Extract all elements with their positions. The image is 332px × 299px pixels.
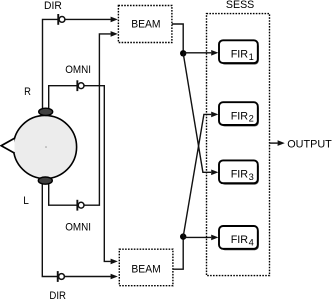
head (top view) (13, 115, 76, 178)
wire junction B to FIR4 (183, 235, 218, 241)
block FIR4 (219, 226, 259, 250)
svg-text:1: 1 (249, 52, 254, 62)
wire SESS output (270, 140, 285, 146)
wire DIR-L (left ear to bottom BEAM input 2) (42, 184, 118, 279)
wire junction A to FIR3 (diagonal) (183, 53, 218, 175)
wire DIR-R (right ear to top BEAM input 1) (43, 17, 118, 110)
block SESS (dashed container) (207, 14, 270, 276)
svg-text:OMNI: OMNI (65, 222, 91, 234)
label SESS (226, 0, 254, 11)
svg-text:BEAM: BEAM (131, 264, 160, 276)
label OUTPUT (287, 139, 332, 151)
block FIR1 (219, 40, 259, 64)
label R (24, 86, 31, 98)
svg-text:OUTPUT: OUTPUT (287, 139, 332, 151)
block BEAM bottom (119, 249, 173, 286)
microphone OMNI-L (76, 200, 84, 211)
label DIR bottom (49, 290, 66, 299)
microphone DIR-R (57, 14, 65, 25)
svg-text:DIR: DIR (44, 0, 62, 12)
svg-text:FIR: FIR (231, 110, 248, 122)
wire BEAM bottom output to junction B (173, 239, 183, 269)
ear R (39, 108, 53, 115)
svg-text:FIR: FIR (231, 234, 248, 246)
block FIR3 (219, 160, 259, 184)
svg-text:SESS: SESS (226, 0, 254, 11)
svg-text:DIR: DIR (49, 290, 66, 299)
wire BEAM top output to junction A (172, 24, 183, 51)
wire OMNI-L (left ear to top BEAM input 2) (49, 31, 118, 205)
label DIR top (44, 0, 62, 12)
svg-text:4: 4 (249, 238, 254, 248)
microphone DIR-L (57, 271, 65, 282)
wire junction B to FIR2 (diagonal) (183, 112, 218, 237)
junction A (top) (180, 50, 186, 56)
label L (23, 195, 29, 207)
junction B (bottom) (180, 233, 186, 239)
svg-text:BEAM: BEAM (131, 18, 160, 30)
microphone OMNI-R (76, 80, 84, 91)
label OMNI bottom (65, 222, 91, 234)
ear L (38, 177, 52, 184)
block BEAM top (118, 6, 171, 43)
label OMNI top (65, 64, 91, 76)
svg-text:2: 2 (249, 114, 254, 124)
svg-text:OMNI: OMNI (65, 64, 91, 76)
svg-text:3: 3 (249, 172, 254, 182)
wire OMNI-R (right ear to bottom BEAM input 1) (49, 86, 118, 265)
wire junction A to FIR1 (183, 50, 218, 56)
svg-text:FIR: FIR (231, 169, 248, 181)
svg-text:R: R (24, 86, 31, 98)
nose (1, 138, 14, 153)
svg-text:FIR: FIR (231, 48, 248, 60)
svg-text:L: L (23, 195, 29, 207)
block FIR2 (219, 102, 259, 126)
